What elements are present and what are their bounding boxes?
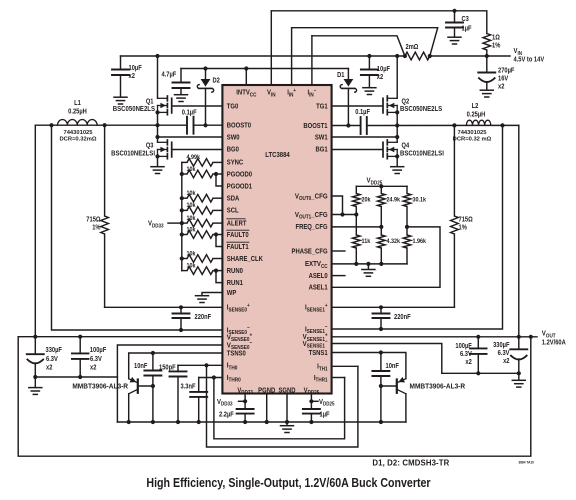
VDD33 bus feed label	[148, 220, 164, 229]
svg-text:LTC3884: LTC3884	[265, 152, 290, 160]
U1 left pin label BG0	[227, 146, 239, 154]
capacitor 330uF x2 left output	[34, 337, 36, 355]
svg-text:1.2V/60A: 1.2V/60A	[542, 339, 566, 347]
L2 value label	[472, 103, 479, 111]
node 11k bottom junction	[354, 262, 358, 266]
150pF value label	[159, 364, 176, 372]
svg-text:TG1: TG1	[316, 103, 328, 111]
U1 left pin label PGOOD0	[227, 171, 253, 179]
svg-text:D1: D1	[337, 72, 345, 80]
wire ASEL0 stub	[332, 275, 345, 277]
svg-text:SGND: SGND	[278, 387, 295, 395]
svg-text:Q2: Q2	[402, 98, 410, 106]
wire left output caps bottom	[35, 376, 117, 378]
node Q1 source junction	[155, 110, 159, 114]
svg-text:4.5V to 14V: 4.5V to 14V	[514, 56, 545, 64]
svg-text:VDD25: VDD25	[319, 398, 335, 407]
svg-text:3.3nF: 3.3nF	[181, 383, 196, 391]
right 10nF value label	[386, 363, 399, 371]
svg-text:BG0: BG0	[227, 146, 239, 154]
resistor 24.9k FREQ_CFG upper	[380, 186, 382, 193]
node 330uF left bottom junction	[33, 375, 37, 379]
transistor Q5 MMBT3906 left	[137, 380, 139, 393]
svg-text:x2: x2	[377, 74, 384, 82]
ground below left 10uF	[114, 96, 127, 98]
U1 left pin label RUN1	[227, 279, 243, 287]
U1 left pin label ITHR0	[227, 374, 241, 383]
VDD33 label	[217, 398, 233, 407]
ground at EXTVCC	[362, 269, 375, 271]
node bus junction ALERT	[180, 221, 184, 225]
wire VOUT1_CFG net	[332, 214, 357, 216]
transistor Q4 bottom NMOS	[386, 140, 388, 145]
right 220nF value label	[394, 314, 411, 322]
wire IIN- kelvin sense	[312, 36, 405, 56]
wire right 330uF ground stem	[518, 373, 520, 380]
svg-text:RUN0: RUN0	[227, 267, 243, 275]
svg-text:20k: 20k	[362, 196, 372, 204]
svg-text:VDD33: VDD33	[148, 220, 164, 229]
U1 left pin label ALERT	[227, 220, 247, 228]
10k RUN0 value label	[187, 262, 197, 270]
U1 left pin label SYNC	[227, 159, 244, 167]
left 0.1uF value label	[182, 109, 197, 117]
node 100uF left bottom junction	[78, 375, 82, 379]
U1 right pin label SW1	[315, 134, 328, 142]
capacitor 10uF x2 left input	[120, 56, 122, 70]
wire ISENSE0- kelvin from L1	[52, 125, 223, 330]
node L1 SW-side junction	[103, 123, 107, 127]
Q2 reference label	[402, 98, 410, 106]
U1 left pin label SDA	[227, 195, 240, 203]
ground below right 330uF	[512, 379, 525, 381]
wire VOUT bottom loop	[18, 337, 531, 457]
wire PGND pin stem	[266, 394, 268, 423]
svg-text:744301025: 744301025	[63, 130, 93, 136]
wire IIN+ kelvin sense	[292, 28, 438, 56]
wire INTVCC pin vertical	[245, 69, 247, 86]
node 220nF right bottom junction	[379, 327, 383, 331]
capacitor 0.1uF boost right	[360, 117, 362, 134]
svg-text:FREQ_CFG: FREQ_CFG	[295, 224, 327, 232]
resistor 11k VOUT_CFG lower	[355, 215, 357, 236]
svg-text:220nF: 220nF	[195, 314, 212, 322]
U1 left pin label VSENSE0−	[227, 340, 252, 351]
svg-text:PGOOD1: PGOOD1	[227, 183, 253, 191]
wire VDD33 pullup bus	[181, 162, 183, 270]
VOUT terminal label	[542, 330, 557, 339]
U1 right pin label VSENSE1+	[303, 332, 328, 343]
svg-text:1%: 1%	[459, 224, 468, 232]
resistor 10k SCL pullup	[182, 209, 187, 211]
U1 top pin label VIN	[267, 89, 276, 98]
svg-text:4.32k: 4.32k	[387, 238, 401, 246]
wire Q5 base lead	[138, 385, 153, 387]
svg-text:High Efficiency, Single-Output: High Efficiency, Single-Output, 1.2V/60A…	[146, 475, 431, 490]
wire Q4 source to ground	[396, 156, 398, 166]
resistor 715ohm right DCR filter	[453, 125, 455, 216]
svg-text:TSNS1: TSNS1	[309, 349, 328, 357]
node bus junction FAULT0	[180, 232, 184, 236]
node C3 junction	[452, 9, 456, 13]
wire SW0 node vertical	[157, 112, 159, 142]
left 10nF value label	[134, 363, 147, 371]
wire ISENSE1+ net	[332, 306, 455, 308]
Q5 reference label	[72, 383, 128, 390]
wire TSNS0 net	[129, 353, 223, 379]
wire Q6 base lead	[381, 385, 397, 387]
wire ITHR0-ITHR1 tie	[214, 378, 345, 439]
svg-text:SW1: SW1	[315, 134, 328, 142]
transistor Q3 bottom NMOS	[166, 140, 168, 145]
svg-text:DCR=0.32 mΩ: DCR=0.32 mΩ	[453, 136, 492, 142]
wire INTVCC net	[181, 68, 348, 70]
node VDD33 junction	[243, 399, 247, 403]
svg-text:MMBT3906-AL3-R: MMBT3906-AL3-R	[410, 383, 466, 390]
svg-text:1Ω: 1Ω	[492, 34, 500, 42]
node Q3 source junction	[155, 154, 159, 158]
D2 reference label	[213, 77, 221, 85]
10k SDA value label	[187, 190, 197, 198]
svg-text:0.25µH: 0.25µH	[68, 108, 87, 116]
U1 right pin label BOOST1	[303, 122, 328, 130]
wire ASEL1 divider link	[332, 227, 440, 287]
ground below 270uF	[480, 89, 493, 91]
U1 right pin label VOUT0_CFG	[295, 193, 328, 202]
wire TSNS1 net	[332, 353, 406, 379]
node divider VDD25 junction	[379, 184, 383, 188]
svg-text:1µF: 1µF	[462, 25, 472, 33]
svg-text:1.96k: 1.96k	[413, 238, 427, 246]
svg-text:6.3V: 6.3V	[90, 356, 102, 364]
svg-text:SYNC: SYNC	[227, 159, 244, 167]
svg-text:2.2µF: 2.2µF	[219, 411, 234, 419]
transistor Q1 top NMOS	[157, 56, 159, 98]
U1 right pin label ISENSE1+	[305, 303, 328, 314]
wire TG1 gate lead	[332, 105, 383, 107]
node SW0 pin junction	[155, 135, 159, 139]
node SW1 cap junction	[395, 123, 399, 127]
left 100uF value label	[90, 347, 106, 355]
wire TG0 gate lead	[172, 105, 223, 107]
wire BG0 gate lead	[172, 149, 223, 151]
svg-text:D1, D2: CMDSH3-TR: D1, D2: CMDSH3-TR	[372, 458, 449, 467]
capacitor 2.2uF VDD33	[237, 408, 254, 410]
VDD25 label	[319, 398, 335, 407]
svg-text:1%: 1%	[92, 224, 101, 232]
U1 right pin label VSENSE1−	[303, 339, 328, 350]
svg-text:BSC050NE2LS: BSC050NE2LS	[113, 106, 156, 114]
C3 value label	[462, 16, 470, 24]
op-amp U1 LTC3884 controller IC body	[222, 85, 331, 394]
U1 left pin label SCL	[227, 207, 239, 215]
Q3 reference label	[146, 142, 154, 150]
left 10uF value label	[129, 65, 142, 73]
wire signal ground rail	[117, 421, 406, 423]
transistor Q2 top NMOS	[396, 56, 398, 98]
svg-text:744301025: 744301025	[457, 130, 487, 136]
wire IIN+ pin vertical	[291, 28, 293, 85]
ground below 4.7uF	[175, 94, 188, 96]
svg-text:PGOOD0: PGOOD0	[227, 171, 253, 179]
node 220nF left top junction	[179, 305, 183, 309]
svg-text:L2: L2	[472, 103, 479, 111]
U1 top pin label INTVCC	[236, 89, 256, 98]
wire right output caps bottom	[442, 372, 519, 374]
VDD25 divider label	[367, 177, 383, 186]
capacitor 100uF x2 right output	[477, 337, 479, 349]
wire IIN- pin vertical	[311, 36, 313, 85]
svg-text:x2: x2	[46, 364, 53, 372]
wire PHASE_CFG stub	[332, 250, 345, 252]
node TSNS0 10nF junction	[151, 351, 155, 355]
Q6 reference label	[410, 383, 466, 390]
node SW1 pin junction	[395, 135, 399, 139]
1.96k value label	[413, 238, 427, 246]
node Q4 source junction	[395, 154, 399, 158]
svg-text:30.1k: 30.1k	[413, 196, 427, 204]
node gnd rail right 10nF junction	[379, 420, 383, 424]
wire L2 output to VOUT rail	[518, 125, 520, 336]
node 330uF left top junction	[33, 335, 37, 339]
left 715ohm value label	[86, 216, 100, 224]
U1 left pin label VSENSE0+	[227, 332, 252, 343]
svg-text:10k: 10k	[187, 165, 197, 173]
svg-text:Q4: Q4	[402, 142, 410, 150]
capacitor 10uF x2 right input	[368, 56, 370, 70]
svg-text:4.7µF: 4.7µF	[162, 71, 177, 79]
U1 right pin label ISENSE1−	[305, 324, 328, 335]
wire FREQ_CFG net	[332, 226, 382, 228]
wire VIN rail	[121, 55, 405, 57]
U1 left pin label SW0	[227, 134, 240, 142]
svg-text:6.3V: 6.3V	[498, 350, 510, 358]
svg-text:PHASE_CFG: PHASE_CFG	[292, 248, 328, 256]
node 220nF right top junction	[379, 305, 383, 309]
ground below right 10uF	[363, 87, 376, 89]
wire ITH0-ITH1 tie	[207, 365, 358, 447]
3.3nF value label	[181, 383, 196, 391]
svg-text:RUN1: RUN1	[227, 279, 243, 287]
node L2 output kelvin junction	[500, 123, 504, 127]
capacitor 3.3nF comp	[198, 378, 200, 392]
U1 right pin label PHASE_CFG	[292, 248, 328, 256]
node bus junction SHARE_CLK	[180, 256, 184, 260]
right 10uF value label	[377, 66, 390, 74]
U1 left pin label FAULT1	[227, 243, 249, 251]
node 20k-11k junction	[354, 212, 358, 216]
node Q2 drain junction	[395, 54, 399, 58]
wire VIN pin vertical	[270, 11, 272, 85]
wire BOOST1 to SW1 line	[332, 125, 361, 127]
svg-text:L1: L1	[74, 100, 81, 108]
U1 right pin label ASEL1	[309, 284, 328, 292]
svg-text:10k: 10k	[187, 250, 197, 258]
capacitor 100uF x2 left output	[79, 337, 81, 354]
svg-text:Q3: Q3	[146, 142, 154, 150]
wire ISENSE1- kelvin from L2	[332, 125, 503, 329]
24.9k value label	[387, 196, 401, 204]
svg-text:ASEL1: ASEL1	[309, 284, 328, 292]
U1 right pin label FREQ_CFG	[295, 224, 327, 232]
svg-text:BSC010NE2LSI: BSC010NE2LSI	[400, 150, 444, 158]
U1 right pin label TG1	[316, 103, 328, 111]
wire VSENSE0- net	[117, 345, 222, 422]
U1 right pin label EXTVCC	[305, 261, 328, 270]
svg-text:150pF: 150pF	[159, 364, 176, 372]
right 0.1uF value label	[355, 108, 370, 116]
node 100uF right top junction	[476, 335, 480, 339]
270uF value label	[498, 67, 514, 75]
node 30.1k-1.96k junction	[405, 225, 409, 229]
node Q6 base junction	[379, 384, 383, 388]
svg-text:x2: x2	[90, 364, 97, 372]
capacitor 0.1uF boost left	[186, 117, 188, 134]
U1 part number label	[265, 152, 290, 160]
svg-text:2mΩ: 2mΩ	[406, 44, 419, 52]
svg-text:330µF: 330µF	[493, 342, 509, 350]
wire SW1 node vertical	[396, 112, 398, 142]
node 100uF right bottom junction	[476, 371, 480, 375]
node bus junction SCL	[180, 208, 184, 212]
Q4 reference label	[402, 142, 410, 150]
ground below C3	[448, 36, 461, 38]
capacitor 220nF channel0 sense	[180, 307, 182, 313]
right 100uF value label	[455, 343, 471, 351]
resistor 1ohm input	[483, 34, 491, 51]
svg-text:6.3V: 6.3V	[46, 356, 58, 364]
U1 left pin label RUN0	[227, 267, 243, 275]
svg-text:10µF: 10µF	[129, 65, 142, 73]
U1 left pin label ISENSE0−	[227, 325, 250, 336]
wire VDD33 pin stem	[244, 394, 246, 410]
wire Q5 collector to ground rail	[128, 394, 130, 422]
svg-text:BSC010NE2LSI: BSC010NE2LSI	[111, 150, 155, 158]
svg-text:PGND: PGND	[258, 387, 275, 395]
node 2mohm right junction	[428, 54, 432, 58]
resistor 10k RUN0 pullup	[182, 270, 187, 272]
wire VDD33 label lead	[239, 400, 246, 402]
node 24.9k-4.32k junction	[379, 225, 383, 229]
4.32k value label	[387, 238, 401, 246]
U1 right pin label ITHR1	[314, 374, 328, 383]
wire ISENSE0+ net	[105, 306, 223, 308]
svg-text:x2: x2	[503, 358, 510, 366]
svg-text:16V: 16V	[498, 75, 509, 83]
capacitor C3 1uF	[446, 22, 463, 24]
node 220nF left bottom junction	[179, 328, 183, 332]
svg-text:x2: x2	[465, 359, 472, 367]
capacitor 4.7uF INTVCC	[180, 69, 182, 83]
capacitor 220nF channel1 sense	[380, 307, 382, 313]
node D2 cathode BOOST0 junction	[203, 123, 207, 127]
node INTVCC pin junction	[244, 66, 248, 70]
U1 right pin label BG1	[315, 146, 327, 154]
resistor 1.96k ASEL lower	[406, 227, 408, 235]
wire VSENSE1- net	[332, 344, 442, 374]
svg-text:ASEL0: ASEL0	[309, 272, 328, 280]
4.99k SYNC value label	[187, 154, 201, 162]
node L1 output kelvin junction	[49, 123, 53, 127]
capacitor 1uF VDD25	[303, 408, 320, 410]
wire EXTVCC gnd stem	[367, 264, 369, 269]
wire VDD25 label lead	[311, 400, 318, 402]
svg-text:0.1µF: 0.1µF	[182, 109, 197, 117]
svg-text:330µF: 330µF	[46, 347, 62, 355]
svg-text:270µF: 270µF	[498, 67, 514, 75]
right 330uF value label	[493, 342, 509, 350]
svg-text:BSC050NE2LS: BSC050NE2LS	[400, 106, 443, 114]
svg-text:10µF: 10µF	[377, 66, 390, 74]
node ITH0 junction	[204, 363, 208, 367]
2mohm value label	[406, 44, 419, 52]
resistor 2mohm sense	[405, 52, 430, 60]
svg-text:x2: x2	[498, 83, 505, 91]
capacitor 10nF left temp	[152, 353, 154, 371]
node 4.32k bottom junction	[379, 262, 383, 266]
svg-text:SCL: SCL	[227, 207, 239, 215]
node VDD25 junction	[309, 399, 313, 403]
svg-text:BOOST1: BOOST1	[303, 122, 328, 130]
svg-text:0.1µF: 0.1µF	[355, 108, 370, 116]
svg-text:ALERT: ALERT	[227, 220, 247, 228]
Q1 reference label	[146, 98, 154, 106]
U1 top pin label IIN+	[287, 87, 296, 98]
node VDD33 label wire	[168, 222, 182, 224]
capacitor 10nF right temp	[380, 353, 382, 372]
10k SHARE_CLK value label	[187, 250, 197, 258]
U1 top pin label IIN-	[307, 87, 316, 98]
node EXTVCC gnd junction	[366, 262, 370, 266]
node Q5 base junction	[151, 384, 155, 388]
U1 left pin label WP	[227, 289, 237, 297]
U1 left pin label FAULT0	[227, 231, 249, 239]
svg-text:FAULT1: FAULT1	[227, 243, 249, 251]
wire VOUT rail left	[18, 336, 222, 338]
node Q1 drain junction	[155, 54, 159, 58]
10k SCL value label	[187, 202, 197, 210]
U1 right pin label ASEL0	[309, 272, 328, 280]
svg-text:4.99k: 4.99k	[187, 154, 201, 162]
svg-text:1%: 1%	[492, 42, 501, 50]
svg-text:24.9k: 24.9k	[387, 196, 401, 204]
wire ITH1 net	[332, 365, 358, 367]
node TSNS1 10nF junction	[379, 350, 383, 354]
wire SGND pin stem	[286, 394, 288, 426]
node gnd rail SGND junction	[285, 420, 289, 424]
U1 right pin label VOUT1_CFG	[295, 211, 328, 220]
svg-text:10nF: 10nF	[386, 363, 399, 371]
svg-text:BG1: BG1	[315, 146, 327, 154]
node VOUT terminal junction	[529, 335, 533, 339]
inductor L1 0.25uH	[57, 119, 97, 125]
ground below Q3	[151, 166, 164, 168]
svg-text:715Ω: 715Ω	[459, 216, 473, 224]
20k value label	[362, 196, 372, 204]
capacitor 150pF comp	[177, 365, 179, 371]
svg-text:D2: D2	[213, 77, 221, 85]
svg-text:10k: 10k	[187, 226, 197, 234]
U1 left pin label TSNS0	[227, 350, 246, 358]
node 100uF left top junction	[78, 335, 82, 339]
svg-text:Q1: Q1	[146, 98, 154, 106]
node 330uF right top junction	[517, 335, 521, 339]
title caption	[146, 475, 431, 490]
node VOUT_CFG tie junction	[340, 212, 344, 216]
wire BG1 gate lead	[332, 149, 383, 151]
node gnd rail 2.2uF junction	[243, 420, 247, 424]
node 1ohm-270uF junction	[485, 54, 489, 58]
